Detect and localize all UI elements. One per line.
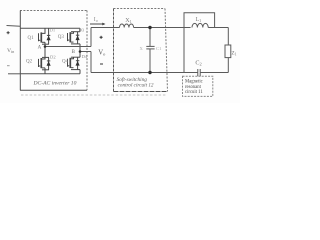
svg-text:X: X: [140, 46, 144, 51]
svg-text:Magnetic: Magnetic: [185, 79, 203, 84]
svg-text:D3: D3: [79, 27, 85, 32]
svg-text:Z1: Z1: [232, 50, 237, 56]
svg-text:control circuit 12: control circuit 12: [118, 83, 154, 89]
svg-text:C1: C1: [156, 46, 162, 51]
svg-text:Q1: Q1: [28, 36, 35, 41]
svg-text:circuit 11: circuit 11: [185, 90, 203, 95]
svg-text:A: A: [38, 45, 42, 50]
svg-text:Vo: Vo: [98, 49, 106, 56]
svg-text:Q3: Q3: [58, 35, 65, 40]
svg-text:Q4: Q4: [62, 59, 69, 64]
svg-text:X1: X1: [125, 18, 132, 24]
svg-text:resonant: resonant: [185, 85, 202, 90]
svg-text:D1: D1: [50, 28, 56, 33]
svg-text:Q2: Q2: [26, 59, 33, 64]
svg-text:Io: Io: [94, 17, 98, 23]
svg-text:L1: L1: [196, 17, 202, 23]
svg-text:C2: C2: [195, 59, 201, 66]
svg-text:D4: D4: [82, 54, 88, 59]
svg-text:D2: D2: [50, 54, 56, 59]
svg-text:DC-AC inverter 10: DC-AC inverter 10: [33, 80, 77, 86]
svg-text:B: B: [72, 50, 76, 55]
svg-text:Vin: Vin: [7, 48, 14, 54]
